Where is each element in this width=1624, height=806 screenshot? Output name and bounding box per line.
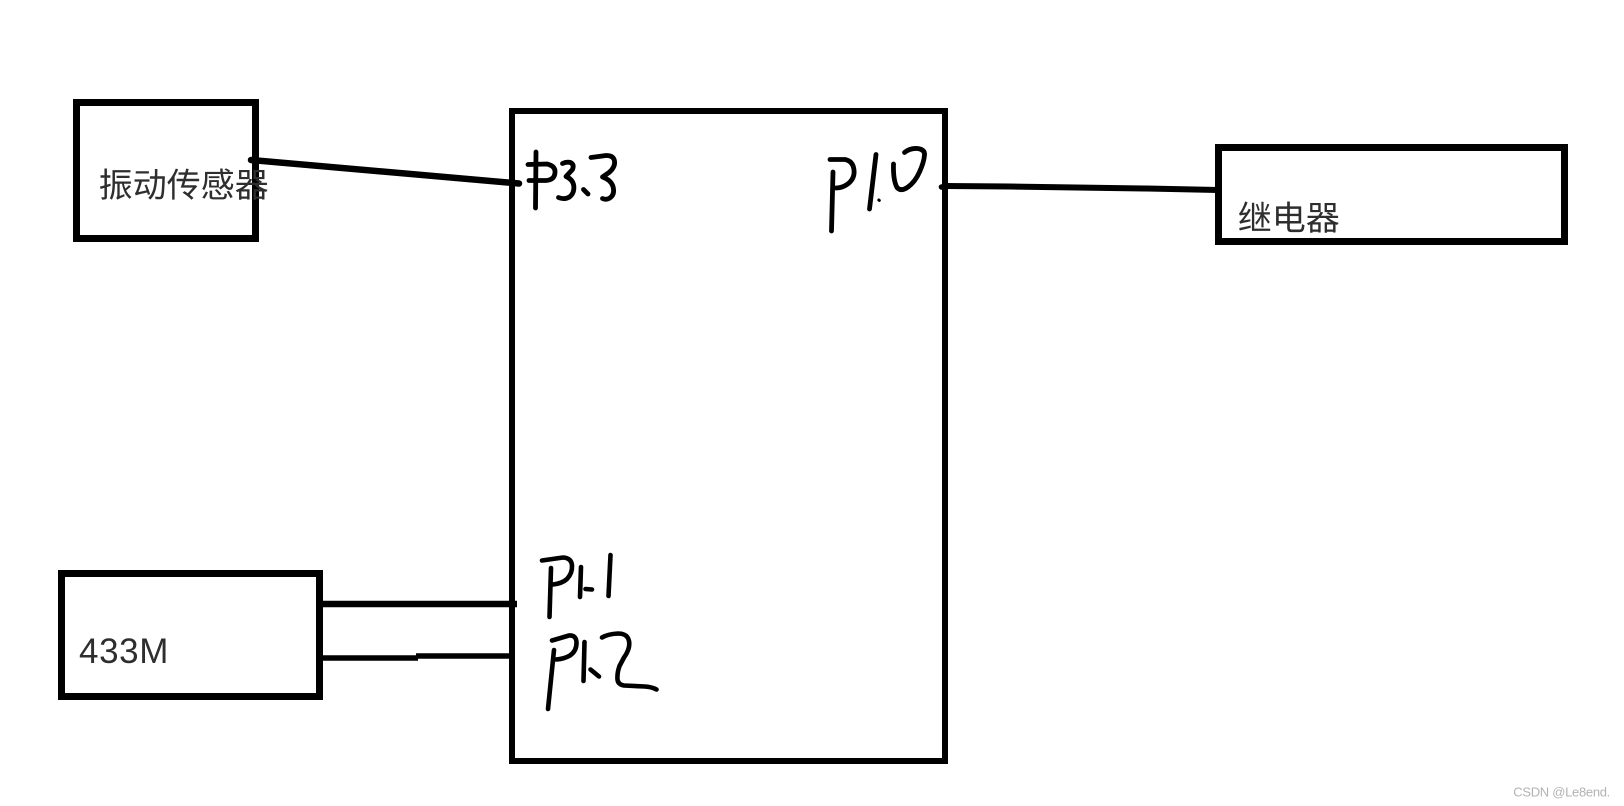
svg-text:433M: 433M	[79, 632, 169, 671]
pin label P3.3 (handwritten)	[528, 152, 615, 208]
wire sensor to P3.3	[251, 160, 519, 184]
box vibration sensor (振动传感器)	[77, 103, 256, 239]
wire P1.0 to relay	[945, 186, 1218, 190]
svg-text:CSDN @Le8end.: CSDN @Le8end.	[1513, 785, 1610, 800]
wire 433M to P1.2 (two offset segments)	[320, 655, 418, 661]
microcontroller box U1	[512, 111, 945, 761]
box 433M	[62, 574, 320, 697]
pin label P1.1 (handwritten)	[542, 555, 611, 617]
label 振动传感器	[100, 168, 268, 199]
pin label P1.0 (handwritten)	[830, 148, 925, 231]
pin label P1.2 (handwritten)	[548, 634, 657, 710]
wire 433M to P1.1	[320, 601, 517, 608]
junction dot at P1.0	[939, 184, 945, 190]
label 继电器	[1239, 201, 1339, 232]
box relay (继电器)	[1219, 148, 1565, 242]
